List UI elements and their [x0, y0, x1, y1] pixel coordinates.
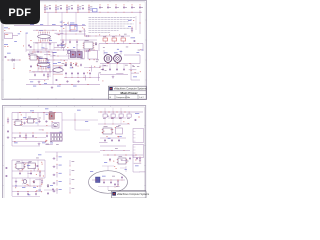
pin number P39	[36, 189, 37, 192]
mid rail	[29, 71, 51, 74]
wire W30	[52, 52, 57, 54]
filter capacitor C4	[82, 5, 84, 10]
right edge vertical bus	[136, 10, 140, 34]
wire W47	[99, 142, 107, 144]
wire W51	[12, 170, 45, 172]
aux rail A	[60, 30, 86, 33]
capacitor C6	[4, 56, 7, 58]
net label N27	[59, 44, 62, 47]
junction J38	[44, 140, 47, 143]
value label V11	[99, 72, 101, 75]
vertical bus A	[61, 20, 63, 48]
wire W39	[12, 145, 40, 147]
net label N28	[49, 39, 52, 42]
junction J30	[72, 62, 75, 65]
value label V17	[101, 68, 104, 71]
sense resistor R40	[70, 160, 75, 166]
value label V16	[137, 65, 139, 68]
bypass cap C21	[69, 40, 71, 44]
capacitor C3	[49, 43, 52, 45]
junction J56	[134, 159, 137, 162]
value label V12	[96, 60, 98, 63]
output caps C40-C42	[55, 79, 80, 83]
pin number P40	[28, 184, 29, 187]
wire W29	[102, 65, 108, 67]
pin number P28	[102, 132, 103, 135]
rectifier D11	[111, 112, 115, 119]
junction J36	[20, 118, 23, 121]
capacitor C16	[19, 172, 32, 175]
pin number P29	[123, 121, 124, 124]
wire W3	[75, 12, 77, 25]
fan ctrl U10	[15, 161, 25, 168]
net label N22	[58, 61, 61, 64]
wire W68	[107, 186, 109, 190]
capacitor C18	[17, 193, 37, 196]
smoothing cap C34	[89, 72, 91, 78]
wire W60	[44, 189, 58, 191]
rectifier D10	[103, 112, 107, 119]
net label N15	[7, 52, 11, 55]
value label V23	[96, 59, 99, 62]
wire W52	[12, 177, 45, 179]
line capacitor C13	[123, 5, 127, 9]
wire W16	[29, 79, 49, 81]
net label N5	[41, 47, 44, 50]
pin number P19	[135, 71, 136, 74]
pin drops	[38, 66, 50, 73]
pin number P8	[65, 43, 66, 46]
junction J14	[77, 50, 80, 53]
wire W10	[46, 51, 49, 53]
junction J20	[39, 65, 42, 68]
input resistor R3	[66, 5, 70, 12]
value label V36	[17, 168, 19, 171]
wire W65	[140, 171, 146, 173]
snubber cap C50	[102, 64, 104, 71]
net label N8	[62, 44, 64, 47]
diode D1	[95, 42, 97, 46]
diode D2	[65, 63, 72, 67]
smoothing cap C33	[83, 72, 85, 78]
wire W37	[12, 136, 46, 139]
junction J31	[63, 59, 66, 62]
value label V39	[126, 160, 128, 163]
net label N7	[73, 46, 75, 49]
MOSFET Q4	[77, 50, 82, 58]
pin number P9	[40, 65, 41, 68]
resistor R8	[139, 157, 141, 163]
wire W48	[45, 151, 100, 153]
bottom rail	[26, 84, 100, 86]
value label V29	[39, 117, 41, 120]
value label V3	[61, 42, 63, 45]
relay K2	[52, 123, 59, 129]
MOSFET Q3	[70, 50, 75, 58]
wire W55	[12, 196, 40, 198]
opto U9	[116, 126, 123, 134]
sense rail	[90, 34, 130, 37]
value label V10	[99, 65, 101, 68]
net label N29	[53, 51, 56, 54]
value label V32	[46, 143, 49, 146]
wire W9	[38, 56, 41, 58]
value label V34	[107, 115, 109, 118]
net VBAT	[4, 28, 10, 31]
value label V18	[133, 65, 135, 68]
resistor R1	[85, 35, 91, 52]
resistor R9	[117, 180, 119, 186]
value label V31	[56, 143, 59, 146]
pin number P7	[67, 46, 68, 49]
divider cap C64	[53, 188, 62, 193]
wire W43	[98, 117, 130, 124]
svg-text:Main Power: Main Power	[121, 91, 139, 95]
net label N16	[30, 81, 47, 84]
value label V13	[65, 64, 67, 67]
supervisor U12	[117, 156, 127, 164]
wire W41	[45, 144, 53, 146]
pin number P21	[20, 30, 21, 33]
wire W33	[55, 32, 64, 34]
wire W46	[100, 148, 130, 151]
junction J50	[37, 168, 40, 171]
sense resistor R41	[70, 169, 75, 175]
pin number P2	[74, 27, 75, 30]
wire W25	[100, 74, 128, 76]
wire W4	[67, 22, 69, 26]
net label N38	[50, 142, 53, 145]
net label N41	[108, 137, 111, 140]
output connector J2	[133, 145, 144, 158]
wire W12	[62, 48, 64, 51]
rail below U2	[32, 70, 56, 73]
net label N39	[135, 113, 140, 118]
junction J11	[139, 11, 142, 14]
wire W1	[47, 12, 49, 25]
resistor R7	[41, 179, 43, 185]
capacitor C14	[104, 139, 120, 142]
junction J15	[107, 42, 139, 45]
net label N34	[23, 116, 26, 119]
wire W24	[124, 55, 140, 64]
wire W6	[44, 54, 51, 56]
junction J47	[18, 190, 37, 193]
svg-text:Component Side: Component Side	[116, 96, 130, 99]
header J4 (2x4)	[51, 133, 63, 142]
wire W49	[56, 152, 58, 156]
left vertical drop	[25, 33, 27, 52]
junction J17	[33, 51, 50, 54]
junction J25	[58, 66, 61, 69]
pin number P3	[63, 27, 64, 30]
capacitor C11	[7, 130, 9, 133]
junction J40	[13, 140, 16, 143]
pin number P22	[52, 120, 53, 123]
wire W11	[54, 46, 62, 48]
capacitor C22	[114, 176, 123, 186]
main horizontal bus	[14, 25, 86, 27]
net label N14	[137, 51, 140, 54]
junction J2	[55, 11, 58, 14]
smoothing cap C31	[71, 72, 73, 78]
comparator A3 (oval)	[53, 63, 63, 75]
line capacitor C11	[107, 5, 111, 9]
wire W14	[99, 44, 143, 52]
junction J54	[36, 185, 39, 188]
timer U1 (oval)	[38, 30, 51, 41]
net label N46	[38, 189, 41, 192]
net label N31	[18, 33, 20, 36]
ref U7	[26, 117, 34, 123]
pin number P27	[45, 139, 46, 142]
wire W13	[76, 46, 78, 54]
crowbar SCR Q7	[96, 177, 101, 183]
wire W2	[61, 12, 63, 25]
ground G4	[38, 143, 41, 146]
sense resistor R42	[70, 178, 75, 184]
resistor R3	[47, 73, 49, 79]
pin number P31	[103, 130, 104, 133]
aux rail C	[84, 66, 100, 69]
capacitor C20	[109, 157, 138, 161]
wire W17	[50, 59, 68, 62]
capacitor C4	[37, 51, 40, 53]
capacitor C15	[36, 165, 39, 167]
wire W15	[14, 63, 15, 69]
wire W22	[104, 50, 121, 55]
pin number P10	[30, 69, 31, 72]
pin rise wires U2	[35, 52, 53, 59]
wire W44	[100, 137, 126, 139]
net label N33	[14, 109, 48, 144]
rail above U1	[33, 29, 57, 32]
pin number P34	[25, 163, 26, 166]
pin number P17	[75, 63, 76, 66]
junction J28	[57, 33, 60, 36]
junction J18	[36, 64, 39, 67]
bus net names	[30, 23, 67, 26]
capacitor C9	[38, 121, 48, 123]
net label N21	[33, 85, 77, 88]
header J3	[70, 23, 77, 31]
rectifier D13	[127, 112, 131, 119]
value label V20	[35, 42, 38, 45]
line capacitor C12	[115, 5, 119, 9]
inductor L3	[121, 36, 126, 43]
value label V14	[62, 62, 65, 65]
standby ctrl U6	[14, 119, 23, 125]
net label N17	[47, 59, 50, 62]
pin number P33	[35, 164, 36, 167]
pin number P5	[34, 51, 35, 54]
junction J3	[66, 11, 69, 14]
junction J33	[22, 44, 25, 47]
value label V4	[76, 44, 78, 47]
switch Q2	[67, 50, 71, 55]
wire W53	[12, 185, 42, 188]
divider cap C61	[53, 164, 62, 169]
pin number P24	[42, 129, 43, 132]
heatsink outline	[68, 50, 84, 59]
net label N25	[104, 52, 118, 55]
fan transistor Q5	[22, 179, 27, 184]
wire W58	[33, 168, 35, 172]
net label N23	[58, 66, 61, 69]
net label N9	[131, 37, 136, 40]
cluster rail and right drop	[29, 52, 53, 85]
pin drop wires U1	[34, 43, 54, 50]
capacitor C21	[103, 181, 112, 184]
value label V22	[81, 57, 84, 60]
wire W38	[12, 141, 47, 143]
opto U5	[88, 49, 98, 60]
output connector J1	[133, 129, 144, 143]
value label V15	[64, 64, 66, 67]
net label N26	[133, 76, 137, 79]
pin number P13	[87, 72, 88, 75]
wire W26	[131, 64, 140, 81]
output rail wire	[99, 43, 143, 45]
resistor R4	[25, 134, 27, 140]
svg-text:PDF: PDF	[8, 7, 31, 19]
value label V24	[104, 64, 106, 67]
capacitor C8	[75, 64, 82, 67]
input resistor R4	[77, 5, 81, 12]
net label N42	[77, 110, 88, 122]
junction J53	[40, 190, 43, 193]
snubber cap C53	[123, 64, 125, 71]
value label V8	[36, 55, 39, 58]
value label V33	[50, 140, 52, 143]
wire W28	[129, 69, 137, 71]
net label N2	[74, 25, 76, 28]
line capacitor C10	[99, 5, 103, 9]
pin number P41	[116, 167, 117, 170]
ground G2	[51, 86, 54, 89]
junction J21	[66, 62, 77, 63]
net label N12	[117, 48, 119, 51]
transformer T2	[114, 55, 122, 63]
line capacitor C14	[131, 5, 135, 9]
net label N11	[120, 50, 123, 53]
wire W40	[39, 129, 44, 131]
wire W57	[22, 161, 31, 163]
wire W21	[84, 75, 86, 80]
wire W62	[133, 155, 140, 172]
net label N44	[27, 164, 30, 167]
ground G6	[15, 180, 18, 183]
wire W36	[12, 132, 62, 134]
pin number P1	[67, 22, 68, 25]
junction J43	[110, 128, 113, 131]
wire W34	[116, 73, 123, 75]
net label N10	[128, 20, 140, 27]
inner verticals BL	[16, 160, 41, 192]
resistor R6	[39, 171, 41, 177]
design notes text block	[89, 18, 136, 33]
junction J29	[71, 66, 74, 69]
pin number P35	[41, 183, 42, 186]
value label V6	[126, 46, 128, 49]
svg-text:eMachines Computer Systems: eMachines Computer Systems	[117, 193, 149, 196]
ground G3	[112, 76, 115, 79]
pin number P20	[140, 71, 141, 74]
diode D3	[33, 180, 35, 184]
wire W31	[42, 42, 48, 44]
timer U2 (oval)	[37, 58, 50, 69]
capacitor C17	[5, 167, 8, 177]
inner verticals	[18, 113, 50, 127]
input resistor R5	[88, 5, 92, 12]
fuse F1	[90, 9, 97, 12]
shunt reg U6A	[29, 53, 38, 60]
value label V30	[14, 137, 16, 140]
wire W63	[120, 166, 126, 172]
wire W56	[27, 172, 31, 174]
pin number P42	[109, 160, 110, 163]
pin number P15	[40, 41, 41, 44]
junction J44	[127, 122, 130, 125]
junction J27	[30, 39, 33, 42]
pin number P30	[115, 126, 116, 129]
page 1 title block: eMachines Main Power	[109, 86, 148, 99]
value label V21	[48, 38, 51, 41]
divider cap C60	[53, 156, 62, 161]
junction J49	[40, 161, 43, 164]
junction J5	[88, 11, 91, 14]
page2 loop wires	[12, 113, 62, 147]
resistor R5	[7, 118, 9, 124]
filter capacitor C2	[60, 5, 62, 10]
pin number P23	[46, 124, 47, 127]
junction J26	[108, 62, 131, 65]
capacitor C19	[47, 188, 54, 195]
net label N32	[14, 40, 17, 43]
page 1 sheet outer border	[2, 1, 147, 100]
capacitor C1	[28, 44, 59, 56]
value label V5	[103, 46, 105, 49]
cap rail	[64, 77, 100, 79]
input resistor R2	[55, 5, 59, 12]
pin number P16	[76, 62, 77, 65]
junction J9	[123, 11, 126, 14]
junction J7	[107, 11, 110, 14]
mid rail	[26, 49, 75, 52]
junction J57	[112, 160, 115, 163]
junction J37	[48, 113, 51, 116]
pin number P32	[22, 168, 23, 171]
junction J12	[58, 29, 61, 32]
pin number P38	[27, 183, 28, 186]
junction J13	[68, 29, 71, 32]
junction J51	[35, 173, 38, 176]
capacitor C10	[19, 135, 48, 138]
ground G5	[7, 136, 10, 139]
wire W64	[121, 160, 127, 162]
net label N37	[35, 122, 37, 125]
value label V38	[121, 159, 123, 162]
junction J32	[101, 79, 104, 82]
net label N45	[15, 185, 17, 188]
inductor L1	[103, 36, 108, 43]
pin number P25	[21, 114, 22, 117]
net VCC3	[4, 44, 8, 47]
blocking diode D5	[8, 59, 21, 61]
page 1 border zone ticks	[2, 1, 147, 100]
snubber cap C52	[116, 64, 118, 71]
pin number P12	[99, 66, 100, 69]
